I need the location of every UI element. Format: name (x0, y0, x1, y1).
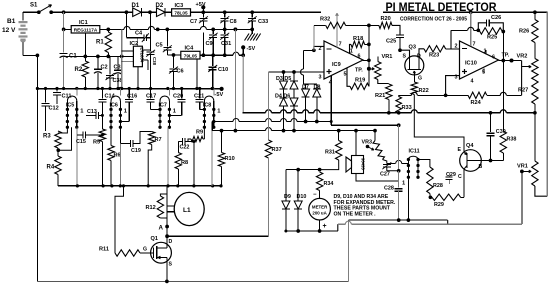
speaker LS1 (355, 131, 357, 156)
resistor R28 (427, 167, 433, 194)
op-amp IC9 (324, 41, 363, 79)
wire bus A (-5V) (243, 112, 266, 114)
wire IC1 ground pin (84, 33, 86, 57)
svg-text:12 V: 12 V (2, 27, 16, 34)
svg-text:IC6: IC6 (110, 102, 118, 108)
IC10 pin1 tick (485, 50, 487, 54)
wire R37 branch vertical (268, 72, 270, 140)
svg-text:90435: 90435 (361, 158, 366, 170)
resistor R29 (432, 194, 461, 200)
svg-text:IC4: IC4 (185, 46, 195, 52)
svg-text:C29: C29 (446, 172, 456, 178)
wire signal upper (348, 219, 447, 221)
wire IC7 column to lower rail (167, 127, 169, 186)
diode D5 (293, 72, 295, 81)
IC4 79L05 (181, 51, 200, 59)
svg-text:C3: C3 (114, 65, 121, 71)
resistor R20 (379, 22, 392, 28)
wire pin3 feed (446, 76, 460, 96)
potentiometer VR1 threshold (369, 68, 374, 70)
svg-text:C6: C6 (177, 68, 184, 74)
svg-text:IC10: IC10 (465, 61, 477, 67)
svg-text:VR3: VR3 (362, 140, 373, 146)
svg-text:R12: R12 (146, 205, 156, 211)
resistor R11 (115, 250, 140, 256)
svg-text:Q4: Q4 (466, 143, 474, 149)
svg-text:R5: R5 (93, 140, 100, 146)
svg-text:IC9: IC9 (332, 62, 341, 68)
resistor R10 (221, 131, 223, 153)
svg-text:R22: R22 (419, 88, 429, 94)
node R28 R29 (429, 195, 433, 199)
svg-text:3: 3 (319, 75, 322, 81)
svg-text:R3: R3 (43, 134, 51, 140)
svg-text:E: E (458, 147, 462, 153)
diode D9 (285, 170, 287, 201)
capacitor C2 (97, 56, 99, 68)
capacitor C9 (212, 29, 214, 34)
resistor R21 (386, 84, 392, 100)
svg-text:R1: R1 (96, 40, 104, 46)
capacitor C1 (63, 29, 65, 52)
capacitor C12 (45, 89, 47, 103)
resistor R8 (177, 142, 179, 153)
inverter IC7 (168, 89, 170, 96)
svg-text:+5V: +5V (196, 2, 206, 8)
inverter IC11 (408, 156, 418, 159)
inverter IC8 (213, 89, 215, 96)
svg-text:TP.: TP. (355, 68, 363, 74)
svg-text:R38: R38 (507, 137, 517, 143)
resistor R4 (57, 150, 59, 156)
svg-text:D4 D6: D4 D6 (275, 94, 290, 100)
wire rail to IC1 input (62, 10, 66, 14)
wire drain node to R37 branch (167, 235, 268, 237)
svg-text:1: 1 (350, 48, 353, 54)
svg-text:C16: C16 (127, 93, 137, 99)
resistor R33 (398, 95, 400, 96)
wire IC2 left pins (121, 29, 123, 88)
capacitor C19 (119, 127, 121, 143)
svg-text:-5V: -5V (215, 92, 224, 98)
resistor R31 (338, 131, 340, 141)
svg-text:R9: R9 (196, 130, 203, 136)
transistor Q4 (460, 150, 482, 172)
wire IC5 outputs weave (58, 127, 67, 133)
svg-text:5: 5 (344, 71, 347, 77)
resistor R27 (532, 80, 538, 104)
svg-text:C22: C22 (180, 145, 190, 151)
svg-text:PI METAL DETECTOR: PI METAL DETECTOR (386, 0, 497, 14)
resistor R34 (316, 172, 322, 191)
wire IC8 column down to lower rail (211, 131, 213, 186)
node Q1 drain junction (165, 234, 169, 238)
capacitor C14 (101, 89, 103, 99)
svg-text:C8: C8 (230, 19, 237, 25)
svg-text:+: + (323, 223, 327, 230)
svg-text:C20: C20 (173, 93, 183, 99)
resistor R32 (313, 25, 315, 50)
IC3 78L05 (172, 9, 191, 16)
wire IC11 to R28 (418, 160, 430, 168)
wire lower rail (58, 185, 222, 187)
svg-text:C12: C12 (49, 106, 59, 112)
wire top supply rail (23, 11, 39, 13)
svg-text:R20: R20 (381, 16, 391, 22)
capacitor C30 (490, 113, 492, 132)
svg-text:R19: R19 (355, 78, 365, 84)
wire IC1 ground node y56.4 (63, 56, 65, 88)
resistor R3 (55, 131, 61, 148)
wire meter bottom (286, 230, 338, 232)
diode D7 (305, 84, 307, 89)
svg-text:C7: C7 (190, 19, 197, 25)
wire meter top (286, 169, 320, 171)
svg-text:R11: R11 (99, 247, 109, 253)
node TP IC9 (367, 67, 371, 71)
wire VR1 wiper down (521, 171, 523, 224)
svg-text:Q3: Q3 (409, 45, 416, 51)
svg-text:REG1117A: REG1117A (74, 27, 98, 32)
svg-text:C15: C15 (76, 139, 86, 145)
IC2 LT1054 (133, 46, 142, 66)
svg-text:R10: R10 (225, 156, 235, 162)
wire meter bottom step up (337, 224, 339, 231)
svg-text:R25: R25 (487, 35, 497, 41)
capacitor C21 (199, 89, 201, 99)
wire D7 D8 top (304, 83, 317, 85)
resistor R1 (107, 29, 109, 32)
svg-text:C19: C19 (131, 148, 141, 154)
wire left vertical bus (36, 55, 38, 281)
svg-text:R23: R23 (429, 53, 439, 59)
wire IC11 branch from bus B (398, 125, 400, 171)
svg-text:VR1: VR1 (517, 164, 528, 170)
capacitor C39 on pump node (150, 38, 152, 51)
node -5V stub (242, 47, 244, 55)
svg-text:3: 3 (455, 75, 458, 81)
svg-text:R28: R28 (433, 183, 443, 189)
resistor R22 (413, 71, 415, 75)
wire IC4 ground pin (196, 59, 198, 89)
svg-text:C: C (458, 174, 462, 180)
capacitor C29 (448, 173, 450, 178)
node -5V rail end (220, 87, 224, 91)
svg-text:METER: METER (312, 205, 328, 210)
svg-text:4: 4 (471, 79, 474, 85)
wire right column to VR1 (533, 111, 537, 115)
svg-text:S: S (403, 54, 407, 60)
svg-text:R21: R21 (375, 93, 385, 99)
capacitor C16 (128, 89, 130, 99)
diode D4 (280, 98, 288, 106)
wire bus B (212, 121, 233, 123)
inverter IC6 (119, 89, 121, 96)
wire bottom-right riser to signal wire (347, 220, 349, 281)
svg-text:S1: S1 (30, 3, 38, 9)
resistor R24 (468, 92, 487, 98)
svg-text:R24: R24 (471, 100, 482, 106)
svg-text:C38: C38 (113, 78, 123, 84)
diode D2 (157, 8, 166, 17)
IC1 REG1117A (71, 26, 100, 33)
wire feedback to pin2 (451, 29, 468, 31)
svg-text:ON THE METER .: ON THE METER . (334, 211, 377, 217)
wire Q3 drain to R23 (419, 49, 424, 57)
svg-text:C25: C25 (386, 39, 396, 45)
wire R22 to Q4 emitter (414, 95, 464, 150)
svg-text:D2: D2 (156, 3, 164, 9)
svg-text:L1: L1 (183, 207, 191, 214)
svg-text:D7: D7 (302, 85, 309, 91)
wire IC9 pin3 input (304, 71, 325, 73)
svg-text:R26: R26 (519, 29, 529, 35)
capacitor C17 (150, 89, 152, 99)
capacitor C20 (181, 89, 183, 99)
wire VR3 node to IC11 input (387, 162, 396, 164)
wire IC10 output node (499, 60, 522, 62)
wire -5V rail (37, 88, 221, 90)
wire coil branch vertical (166, 186, 168, 243)
wire IC9 output (363, 59, 369, 61)
wire IC9 output node vertical (368, 25, 370, 86)
svg-text:C4: C4 (135, 31, 143, 37)
resistor R5 (99, 129, 105, 142)
svg-text:C9: C9 (206, 41, 213, 47)
svg-text:R4: R4 (47, 165, 55, 171)
svg-text:R34: R34 (324, 181, 334, 187)
wire IC2 to IC4 input (167, 54, 181, 56)
wire vertical bus x236 (234, 28, 238, 32)
potentiometer VR2 (532, 59, 538, 81)
svg-text:B: B (479, 164, 483, 170)
wire -5V output (200, 54, 233, 56)
svg-text:R8: R8 (181, 160, 188, 166)
svg-text:-5V: -5V (247, 46, 256, 52)
svg-text:R33: R33 (402, 105, 412, 111)
node A (165, 225, 169, 229)
svg-text:B1: B1 (7, 18, 16, 25)
svg-text:TP.: TP. (502, 53, 510, 59)
switch S1 (37, 10, 41, 14)
node TP IC10 (510, 59, 514, 63)
wire battery negative to left bus (23, 54, 37, 56)
svg-text:VR1: VR1 (382, 54, 393, 60)
svg-text:R7: R7 (155, 137, 162, 143)
svg-text:C33: C33 (258, 19, 268, 25)
capacitor C31 (224, 29, 226, 34)
svg-text:IC11: IC11 (409, 149, 420, 155)
capacitor C33 (250, 10, 254, 14)
svg-text:D9: D9 (284, 194, 291, 200)
wire Q1 source to bottom rail (166, 263, 168, 281)
diode D3 (283, 72, 285, 81)
diode D1 (133, 8, 142, 17)
svg-text:D10: D10 (297, 194, 307, 200)
svg-text:6: 6 (492, 55, 495, 61)
capacitor C13 (86, 114, 96, 116)
svg-text:−: − (313, 192, 317, 198)
svg-text:D: D (169, 239, 173, 245)
svg-text:C17: C17 (146, 93, 156, 99)
wire vertical bus x242.6 (-5V feed) (242, 55, 244, 113)
resistor R2 (84, 56, 86, 61)
inverter IC5 (76, 89, 78, 96)
diode D6 (290, 98, 298, 106)
svg-text:C5: C5 (156, 42, 163, 48)
wire IC9 pin4 to bus B (330, 76, 332, 122)
svg-text:200 uA: 200 uA (312, 211, 327, 216)
resistor R23 (424, 46, 446, 52)
capacitor C11 (56, 89, 58, 92)
svg-text:R31: R31 (325, 150, 335, 156)
svg-text:IC8: IC8 (203, 102, 211, 108)
wire IC9 pin7 supply (336, 16, 338, 48)
resistor R19 (347, 68, 350, 87)
wire R37 to Q1 drain (268, 158, 270, 236)
capacitor C7 (201, 10, 205, 14)
resistor R37 (265, 140, 271, 158)
resistor R6 (110, 127, 112, 145)
svg-text:Q1: Q1 (151, 236, 158, 242)
svg-text:R2: R2 (75, 67, 83, 73)
resistor R18 (350, 44, 352, 53)
capacitor C28 (395, 188, 403, 190)
svg-text:6: 6 (358, 54, 361, 60)
svg-text:C2: C2 (101, 65, 108, 71)
wire output to R38 branch (502, 32, 504, 61)
capacitor C25 (396, 34, 404, 36)
wire D7D8 to IC9 pin2 node (303, 75, 305, 84)
op-amp IC10 (460, 41, 499, 79)
wire feedback corner x521.6 (521, 61, 523, 96)
wire Q3 source (400, 50, 410, 57)
svg-text:D1: D1 (132, 3, 140, 9)
svg-text:78L05: 78L05 (174, 11, 188, 16)
diode D8 (316, 84, 318, 89)
svg-text:IC7: IC7 (159, 102, 167, 108)
svg-text:C27: C27 (380, 172, 390, 178)
potentiometer VR1 volume (532, 161, 538, 186)
svg-text:G: G (143, 247, 147, 253)
capacitor C5 (166, 29, 168, 46)
meter M1 (309, 198, 331, 220)
svg-text:R29: R29 (434, 202, 444, 208)
svg-text:G: G (418, 76, 422, 82)
svg-text:A: A (159, 225, 164, 232)
capacitor C3 (117, 56, 119, 69)
wire IC2 top pin (136, 38, 138, 47)
resistor R12 (160, 194, 167, 196)
svg-text:C10: C10 (218, 67, 228, 73)
wire IC1 output rail y29.4 (100, 28, 124, 30)
capacitor C22 (178, 141, 182, 143)
potentiometer VR3 (374, 131, 376, 141)
svg-text:C31: C31 (221, 41, 231, 47)
svg-text:2: 2 (455, 44, 458, 50)
transistor Q3 (405, 56, 424, 75)
capacitor C6 (173, 55, 175, 68)
diode D10 (297, 170, 299, 201)
wire Q4 base (481, 160, 503, 162)
capacitor C8 (223, 10, 227, 14)
svg-text:S: S (169, 262, 173, 268)
svg-text:C38: C38 (152, 57, 157, 66)
capacitor C26 and resistor R25 feedback (476, 28, 480, 32)
wire bottom rail (37, 280, 348, 282)
coil L1 (174, 192, 204, 225)
svg-text:IC1: IC1 (79, 20, 88, 26)
svg-text:VR2: VR2 (517, 54, 528, 60)
svg-text:IC5: IC5 (66, 102, 74, 108)
svg-text:R6: R6 (114, 153, 121, 159)
wire right vertical bus (546, 12, 548, 196)
svg-text:7: 7 (473, 42, 476, 48)
svg-text:D8: D8 (314, 85, 321, 91)
svg-text:79L05: 79L05 (184, 53, 198, 58)
wire IC2 right pins (142, 49, 150, 51)
node +5V (201, 5, 205, 9)
wire feedback y95.3 (399, 94, 412, 96)
wire gate drive staircase (115, 186, 124, 253)
wire IC11 output down (407, 177, 409, 220)
wire VR1 bottom to right bus (535, 186, 547, 196)
svg-text:2: 2 (319, 46, 322, 52)
svg-text:CORRECTION OCT 26 - 2005: CORRECTION OCT 26 - 2005 (400, 17, 467, 23)
svg-text:D3 D5: D3 D5 (276, 76, 291, 82)
resistor R7 (149, 132, 155, 145)
svg-text:7: 7 (339, 41, 342, 47)
wire IC2 ground pin (137, 67, 139, 89)
svg-text:R18: R18 (353, 36, 363, 42)
resistor R26 (533, 10, 537, 14)
wire IC10 pin7 supply (469, 10, 473, 14)
svg-text:C26: C26 (491, 15, 501, 21)
wire diode cluster top (269, 71, 325, 73)
svg-text:IC3: IC3 (175, 3, 184, 9)
resistor R38 (500, 131, 506, 153)
capacitor C27 (383, 160, 387, 164)
svg-text:C28: C28 (384, 186, 394, 192)
svg-text:R32: R32 (320, 17, 330, 23)
resistor R9 (203, 127, 205, 139)
wire bus C (ground) (212, 130, 265, 132)
battery B1 (22, 12, 24, 20)
svg-text:C21: C21 (194, 93, 204, 99)
svg-text:R37: R37 (272, 147, 282, 153)
capacitor C4 (125, 12, 127, 38)
svg-text:C13: C13 (87, 109, 97, 115)
capacitor C15 (76, 127, 78, 186)
capacitor C10 (212, 55, 214, 66)
wire signal lower (338, 223, 346, 225)
IC10 pin5 tick (483, 69, 485, 74)
transistor Q1 (151, 242, 172, 263)
capacitor C38 (109, 56, 111, 74)
svg-text:R27: R27 (518, 88, 528, 94)
wire C19 branch to lower rail (119, 144, 121, 186)
ground (251, 29, 253, 34)
